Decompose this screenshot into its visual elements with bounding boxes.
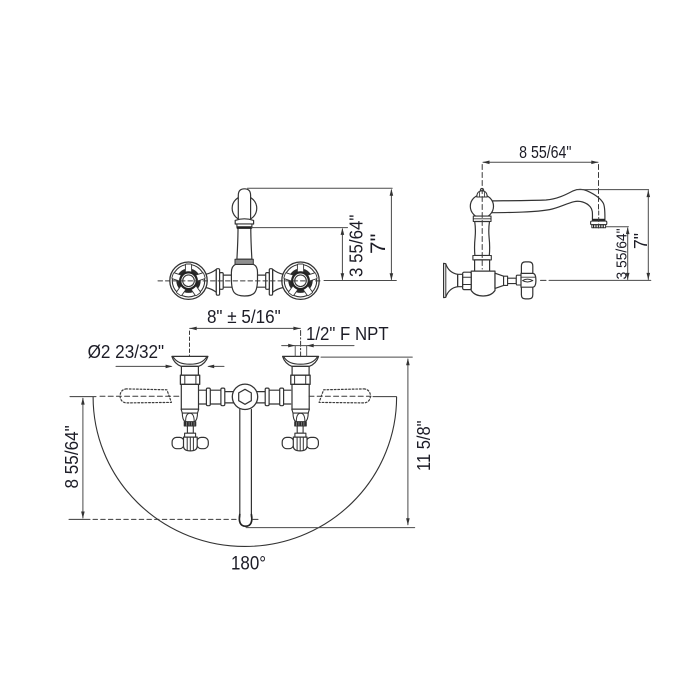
dim line 7 (front) xyxy=(390,190,392,280)
nipple (side) xyxy=(458,274,463,286)
extension flange top (top) xyxy=(321,356,412,358)
wire bridge pipe (front) xyxy=(205,275,284,287)
column band (side) xyxy=(473,256,491,260)
arrows 3 55/64 front xyxy=(341,228,345,235)
dim line 7 (side) xyxy=(647,191,649,280)
right pipe disc B (top) xyxy=(265,388,269,406)
cross handle (side) xyxy=(521,262,536,299)
hex nut (side) xyxy=(463,272,472,289)
svg-text:7": 7" xyxy=(631,233,651,249)
front view horizontal centerline xyxy=(158,280,323,282)
leader collar (front) xyxy=(252,227,348,229)
diameter leader left (top) xyxy=(116,365,171,367)
left pipe disc A (top) xyxy=(206,388,210,406)
wall flange (side) xyxy=(444,263,458,297)
bridge pipe (top) right xyxy=(257,390,291,404)
arrows diameter 2 23/32 xyxy=(166,365,173,369)
svg-text:8" ± 5/16": 8" ± 5/16" xyxy=(207,306,281,327)
arrows 8 55/64 top xyxy=(81,398,85,405)
top view spout tip dashed line xyxy=(69,518,90,520)
phantom lever right xyxy=(319,389,370,403)
collar (side) xyxy=(473,216,491,221)
thick separation line xyxy=(238,226,251,229)
aerator xyxy=(591,219,607,228)
svg-text:3 55/64": 3 55/64" xyxy=(346,215,367,277)
phantom lever left xyxy=(120,389,171,403)
column (front) xyxy=(237,228,252,260)
arrows 11 5/8 top xyxy=(406,358,410,365)
extension bottom (side) xyxy=(549,279,651,281)
hub (top) xyxy=(232,384,257,409)
arrows 7 front xyxy=(390,189,394,196)
dim line 3 55/64 (front) xyxy=(341,229,343,280)
right pipe disc A (top) xyxy=(280,388,284,406)
small collar xyxy=(237,224,252,227)
stem (side) xyxy=(508,278,517,283)
side view aerator centerline xyxy=(598,211,600,229)
packing nut (side) xyxy=(495,273,504,288)
svg-text:Ø2 23/32": Ø2 23/32" xyxy=(88,341,165,362)
left pipe disc xyxy=(216,269,219,296)
left valve (top) xyxy=(172,356,208,451)
column (side) xyxy=(475,222,490,256)
dim line 8 +- 5/16 xyxy=(190,327,301,329)
leader spout top (front) xyxy=(248,187,393,189)
right pipe cone joint xyxy=(273,269,284,292)
diameter leader right (top) xyxy=(209,365,224,367)
dim line 11 5/8 (top) xyxy=(407,359,409,525)
ball (front) xyxy=(232,196,257,221)
dim8 left dashed extension xyxy=(189,331,191,356)
left handle wheel xyxy=(170,262,207,299)
svg-text:8 55/64": 8 55/64" xyxy=(519,142,571,162)
svg-text:8 55/64": 8 55/64" xyxy=(61,425,82,488)
leader 7 (side) xyxy=(578,189,649,191)
svg-text:1/2" F NPT: 1/2" F NPT xyxy=(306,324,389,344)
dim line 8 55/64 (side) xyxy=(483,161,598,163)
valve body (side) xyxy=(471,271,495,296)
big collar xyxy=(235,219,253,224)
right pipe disc xyxy=(269,269,272,296)
arrows 7 side xyxy=(647,190,651,197)
dim8 right dash-dot extension xyxy=(300,331,302,357)
bridge pipe (top) left xyxy=(200,390,234,404)
left pipe ring xyxy=(220,273,224,290)
right pipe ring xyxy=(266,273,270,290)
svg-text:7": 7" xyxy=(367,234,390,255)
swing arc 180 xyxy=(93,397,397,546)
extension bottom right (front) xyxy=(324,280,396,282)
right valve (top) xyxy=(282,356,318,451)
left pipe cone joint xyxy=(206,269,217,292)
arrows NPT xyxy=(288,344,295,348)
gray collar band xyxy=(235,259,253,264)
arrows 8 +- 5/16 xyxy=(190,327,197,331)
top view lever centerline right xyxy=(309,395,371,397)
leader 3 55/64 (side) xyxy=(606,226,628,228)
svg-text:180°: 180° xyxy=(231,554,266,575)
finial xyxy=(477,188,487,197)
side view column centerline xyxy=(481,165,483,270)
arrows 3 55/64 side xyxy=(626,227,630,234)
arrows 8 55/64 side xyxy=(483,161,490,165)
ball (side) xyxy=(470,195,493,218)
side view spout extension centerline xyxy=(598,165,600,210)
NPT leader xyxy=(282,345,354,347)
spout tube (top) xyxy=(239,410,251,527)
stem block (side) xyxy=(516,275,521,285)
column base (side) xyxy=(475,260,490,271)
dim line 3 55/64 (side) xyxy=(627,228,629,280)
side view bottom centerline xyxy=(541,279,547,281)
top view lever centerline left xyxy=(70,396,96,398)
svg-text:11 5/8": 11 5/8" xyxy=(414,420,434,471)
right handle wheel xyxy=(282,262,319,299)
svg-text:3 55/64": 3 55/64" xyxy=(615,229,631,280)
packing collar xyxy=(504,276,508,285)
spout (side) xyxy=(491,189,605,219)
spout tube (front) xyxy=(238,189,250,220)
dim line 8 55/64 (top) xyxy=(82,398,84,518)
extension spout tip bottom (top) xyxy=(246,527,415,529)
left pipe disc B (top) xyxy=(221,388,225,406)
center body (front) xyxy=(231,264,257,296)
